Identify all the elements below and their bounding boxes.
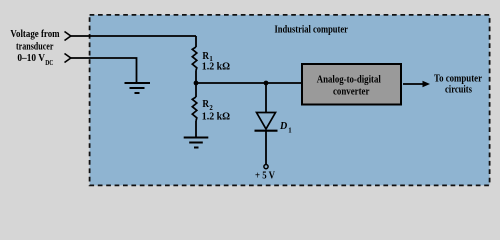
svg-text:Industrial computer: Industrial computer: [274, 24, 348, 35]
svg-text:1: 1: [288, 127, 292, 134]
svg-text:1.2 kΩ: 1.2 kΩ: [202, 62, 230, 73]
svg-text:DC: DC: [45, 60, 53, 67]
svg-text:1.2 kΩ: 1.2 kΩ: [202, 112, 230, 123]
svg-text:circuits: circuits: [445, 85, 472, 96]
svg-text:converter: converter: [333, 86, 370, 97]
svg-text:Voltage from: Voltage from: [10, 29, 60, 40]
svg-text:Analog-to-digital: Analog-to-digital: [317, 74, 381, 85]
svg-text:+ 5 V: + 5 V: [255, 171, 276, 182]
svg-text:transducer: transducer: [16, 41, 54, 52]
svg-text:0–10 V: 0–10 V: [17, 53, 45, 64]
svg-text:To computer: To computer: [434, 73, 482, 84]
svg-text:D: D: [279, 121, 287, 132]
